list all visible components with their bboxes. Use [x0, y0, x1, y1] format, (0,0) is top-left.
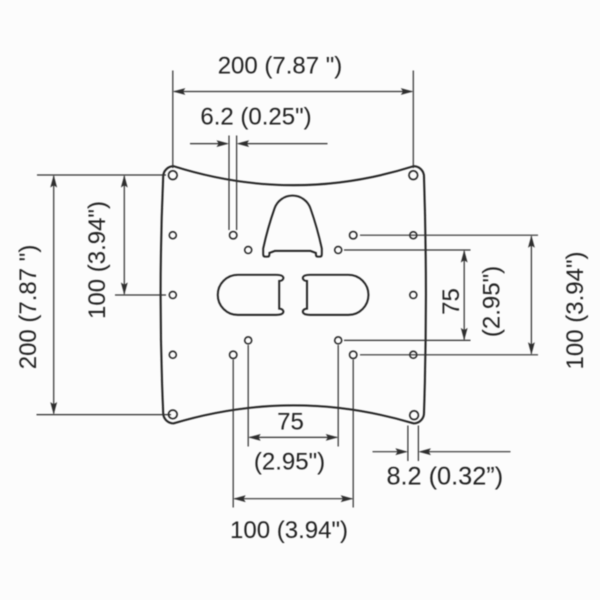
- VESA75 hole bottom-left: [245, 337, 252, 344]
- dimension 75 bottom: right arrowhead: [326, 434, 339, 441]
- dimension 100 left: extension line: [115, 294, 166, 296]
- corner hole top-right: [409, 171, 418, 180]
- dimension 200 top: extension lines: [173, 71, 413, 169]
- dimension 75 bottom: left arrowhead: [248, 434, 261, 441]
- left slot cutout: [218, 275, 284, 315]
- VESA100 hole bottom-right: [350, 351, 357, 358]
- svg-text:200 (7.87 "): 200 (7.87 "): [15, 245, 42, 370]
- VESA100 hole top-right: [350, 232, 357, 239]
- dimension 75 bottom: dimension line: [250, 436, 338, 438]
- corner hole bottom-left: [168, 410, 177, 419]
- dimension 100 right: dimension line: [530, 236, 532, 354]
- dimension 75 right: extension lines: [344, 250, 471, 340]
- dimension 100 bottom: extension lines: [233, 360, 353, 508]
- dimension 8.2: left arrowhead: [395, 448, 408, 455]
- dimension 200 left: dimension line: [53, 176, 55, 414]
- left edge hole lower: [169, 351, 176, 358]
- dimension 100 left: dimension line: [123, 176, 125, 294]
- corner hole bottom-right: [410, 411, 419, 420]
- VESA100 hole bottom-left: [230, 351, 237, 358]
- left edge hole upper: [169, 232, 176, 239]
- svg-text:6.2 (0.25"): 6.2 (0.25"): [200, 103, 311, 130]
- right edge hole upper: [410, 232, 417, 239]
- dimension 6.2: right leader: [239, 143, 328, 145]
- dimension 100 bottom: left arrowhead: [233, 495, 246, 502]
- dimension 75 bottom: extension lines: [248, 345, 338, 447]
- dimension 6.2: left leader: [190, 143, 227, 145]
- dimension 100 left: bottom arrowhead: [121, 283, 128, 296]
- plate outline: [161, 166, 426, 423]
- dimension 75 right: dimension line: [463, 251, 465, 340]
- dimension 6.2: right arrowhead: [237, 140, 250, 147]
- VESA75 hole bottom-right: [335, 337, 342, 344]
- right slot cutout: [303, 275, 369, 315]
- svg-text:100 (3.94"): 100 (3.94"): [84, 201, 111, 319]
- dimension 100 bottom: dimension line: [235, 498, 353, 500]
- svg-text:(2.95"): (2.95"): [254, 449, 325, 476]
- svg-text:100 (3.94"): 100 (3.94"): [562, 252, 589, 370]
- svg-text:(2.95"): (2.95"): [478, 266, 505, 337]
- svg-text:8.2 (0.32”): 8.2 (0.32”): [386, 462, 503, 490]
- dimension 100 right: extension lines: [360, 235, 538, 355]
- dimension 100 bottom: right arrowhead: [341, 495, 354, 502]
- svg-text:200 (7.87 "): 200 (7.87 "): [218, 52, 343, 79]
- dimension 200 left: extension lines: [37, 175, 172, 415]
- dimension 200 left: bottom arrowhead: [50, 402, 57, 415]
- right edge hole middle: [410, 292, 417, 299]
- VESA75 hole top-left: [245, 247, 252, 254]
- VESA75 hole top-right: [335, 247, 342, 254]
- dimension 75 right: top arrowhead: [461, 250, 468, 263]
- dimension 200 top: right arrowhead: [401, 88, 414, 95]
- dimension 200 top: left arrowhead: [173, 88, 186, 95]
- keyhole bracket (bell) cutout: [263, 196, 322, 257]
- svg-text:100 (3.94"): 100 (3.94"): [230, 517, 348, 544]
- dimension 100 left: top arrowhead: [121, 175, 128, 188]
- dimension 8.2: extension lines: [408, 426, 419, 462]
- svg-text:75: 75: [438, 288, 465, 315]
- dimension 200 top: dimension line: [174, 91, 412, 93]
- dimension 6.2: extension lines: [229, 136, 237, 231]
- dimension 100 right: top arrowhead: [528, 235, 535, 248]
- left edge hole middle: [169, 292, 176, 299]
- dimension 75 right: bottom arrowhead: [461, 328, 468, 341]
- dimension 8.2: right leader: [420, 451, 510, 453]
- dimension 200 left: top arrowhead: [50, 175, 57, 188]
- dimension 100 right: bottom arrowhead: [528, 342, 535, 355]
- corner hole top-left: [168, 171, 177, 180]
- dimension 8.2: left leader: [373, 451, 407, 453]
- VESA100 hole top-left: [230, 232, 237, 239]
- svg-text:75: 75: [277, 408, 304, 435]
- dimension 8.2: right arrowhead: [418, 448, 431, 455]
- right edge hole lower: [410, 351, 417, 358]
- dimension 6.2: left arrowhead: [217, 140, 230, 147]
